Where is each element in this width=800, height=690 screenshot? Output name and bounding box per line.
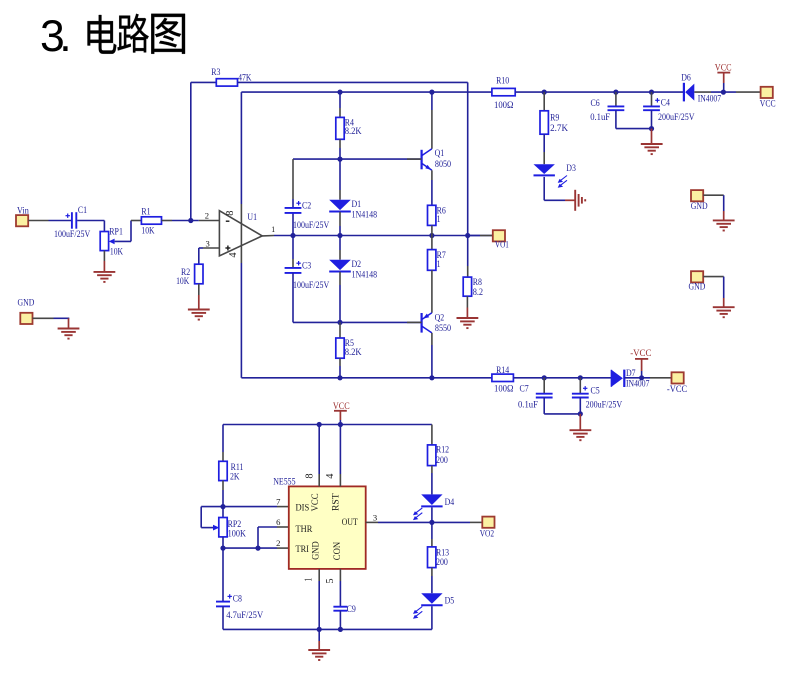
GND left ground <box>68 318 70 328</box>
wire DIS to chip <box>223 506 277 508</box>
svg-text:4.7uF/25V: 4.7uF/25V <box>226 610 263 620</box>
555 ground <box>318 629 320 641</box>
C5 ground <box>579 414 581 430</box>
node C9 bottom <box>338 627 343 632</box>
port VO2 <box>482 517 494 528</box>
potentiometer RP1 <box>100 232 108 251</box>
capacitor C2 <box>285 207 302 209</box>
svg-text:C7: C7 <box>520 383 530 393</box>
node R9 top <box>542 90 547 95</box>
transistor Q2 <box>421 313 423 333</box>
wire R3 rail right to feedback column <box>238 81 468 83</box>
svg-text:GND: GND <box>689 281 706 291</box>
node R3 R8 VO1 <box>465 233 470 238</box>
svg-text:GND: GND <box>18 297 35 307</box>
svg-text:8: 8 <box>225 211 236 216</box>
wire C1 to RP1 <box>77 220 104 222</box>
RP2 wiper arrow <box>213 525 219 531</box>
svg-text:R12: R12 <box>436 445 449 455</box>
RP1 ground <box>103 251 105 261</box>
svg-text:CON: CON <box>332 541 342 560</box>
svg-text:0.1uF: 0.1uF <box>518 400 538 410</box>
svg-text:2K: 2K <box>230 471 240 481</box>
svg-text:C3: C3 <box>302 261 312 271</box>
capacitor C5 <box>579 378 581 394</box>
node pin8 top <box>317 422 322 427</box>
resistor R5 <box>339 322 341 338</box>
wire rail right of R14 <box>513 377 611 379</box>
svg-text:1N4148: 1N4148 <box>352 210 378 220</box>
resistor R1 <box>141 217 161 224</box>
svg-text:10K: 10K <box>110 247 124 257</box>
svg-text:5: 5 <box>325 578 336 583</box>
svg-text:IN4007: IN4007 <box>698 93 722 103</box>
capacitor C7 <box>543 378 545 394</box>
svg-text:8.2K: 8.2K <box>345 126 362 136</box>
wire THR line <box>277 526 289 528</box>
port -VCC <box>672 372 684 383</box>
svg-text:100uF/25V: 100uF/25V <box>54 229 91 239</box>
node THR TRI join <box>255 546 260 551</box>
node R4 D1 top <box>337 157 342 162</box>
node R6 R7 <box>429 233 434 238</box>
resistor R10 <box>492 88 515 95</box>
opamp plus sign <box>225 247 230 249</box>
wire Vin to C1 <box>28 220 48 222</box>
wire OUT line <box>366 521 378 523</box>
svg-text:D1: D1 <box>352 199 362 209</box>
capacitor C8 <box>216 601 230 603</box>
LED D5 <box>421 593 442 604</box>
svg-text:7: 7 <box>276 496 281 506</box>
svg-text:3: 3 <box>206 239 210 249</box>
svg-text:200uF/25V: 200uF/25V <box>586 400 623 410</box>
svg-text:VCC: VCC <box>310 493 320 511</box>
capacitor C1 <box>71 212 73 229</box>
wire C2 column <box>292 159 294 199</box>
svg-text:Vin: Vin <box>17 205 29 215</box>
wire V- rail y377 <box>241 377 492 379</box>
svg-text:VO1: VO1 <box>495 239 509 249</box>
resistor R7 <box>431 236 433 250</box>
capacitor C3 <box>292 236 294 260</box>
svg-text:Q1: Q1 <box>435 148 445 158</box>
node VCC tick <box>721 90 726 95</box>
node C7 top <box>542 375 547 380</box>
svg-text:-VCC: -VCC <box>630 348 651 358</box>
svg-text:U1: U1 <box>247 212 257 222</box>
pin 1 stub <box>318 569 320 581</box>
svg-text:10K: 10K <box>176 276 190 286</box>
svg-text:4: 4 <box>228 252 239 258</box>
transistor Q1 <box>429 90 434 95</box>
resistor R14 <box>492 374 514 381</box>
resistor R6 <box>431 170 433 180</box>
svg-text:1: 1 <box>303 578 314 582</box>
node Q2 collector <box>429 375 434 380</box>
node R4 top <box>337 90 342 95</box>
svg-text:VCC: VCC <box>333 401 350 411</box>
wire D6 to VCC port <box>694 91 711 93</box>
svg-text:GND: GND <box>691 201 708 211</box>
pin 8 stub <box>318 474 320 486</box>
svg-text:C4: C4 <box>661 98 671 108</box>
wire R1 to opamp pin2 <box>162 220 173 222</box>
svg-text:THR: THR <box>296 524 313 534</box>
svg-text:100uF/25V: 100uF/25V <box>293 280 330 290</box>
resistor R4 <box>339 92 341 108</box>
svg-text:2: 2 <box>276 538 280 548</box>
svg-text:DIS: DIS <box>296 503 310 513</box>
wire R3 rail left <box>191 81 217 83</box>
svg-text:R9: R9 <box>550 113 560 123</box>
resistor R3 <box>216 79 237 86</box>
svg-text:C6: C6 <box>591 98 601 108</box>
svg-text:D4: D4 <box>445 497 455 507</box>
potentiometer RP2 <box>222 507 224 518</box>
pin 5 stub C9 <box>339 569 341 581</box>
node C4 bottom <box>649 126 654 131</box>
svg-text:0.1uF: 0.1uF <box>590 112 610 122</box>
svg-text:3: 3 <box>373 512 377 522</box>
resistor R2 <box>195 264 203 284</box>
svg-text:1: 1 <box>437 259 441 269</box>
svg-text:6: 6 <box>276 517 281 527</box>
GND2 ground <box>713 306 735 308</box>
node pin1 bottom <box>317 627 322 632</box>
opamp U1 <box>219 211 262 256</box>
node pin2 junction <box>188 218 193 223</box>
R8 ground <box>466 296 468 307</box>
svg-text:8050: 8050 <box>435 159 452 169</box>
svg-text:100uF/25V: 100uF/25V <box>293 220 330 230</box>
node R11 RP2 DIS <box>220 504 225 509</box>
svg-text:2.7K: 2.7K <box>550 123 568 133</box>
svg-text:8.2: 8.2 <box>473 287 483 297</box>
svg-text:R14: R14 <box>496 365 510 375</box>
svg-text:100Ω: 100Ω <box>494 384 514 394</box>
svg-text:8.2K: 8.2K <box>345 347 362 357</box>
svg-text:VO2: VO2 <box>480 528 494 538</box>
diode D6 <box>683 83 685 102</box>
LED D3 <box>543 134 545 152</box>
svg-text:D2: D2 <box>352 259 362 269</box>
svg-text:R3: R3 <box>211 67 221 77</box>
wire D3 to ground <box>543 177 545 200</box>
node OUT <box>429 520 434 525</box>
svg-text:10K: 10K <box>141 226 155 236</box>
wire D7 to -VCC port <box>624 377 650 379</box>
port VO1 <box>468 235 480 237</box>
wire right column <box>431 425 433 445</box>
svg-text:-VCC: -VCC <box>667 384 687 394</box>
svg-text:D6: D6 <box>681 72 691 82</box>
port Vin <box>16 215 28 226</box>
node pin4 top <box>338 422 343 427</box>
diode D7 <box>610 370 612 387</box>
wire OUT to VO2 <box>432 521 470 523</box>
resistor R13 <box>431 522 433 539</box>
node RP2 bottom TRI <box>220 546 225 551</box>
svg-text:D5: D5 <box>445 596 455 606</box>
svg-text:8550: 8550 <box>435 323 452 333</box>
wire output rail y235 <box>293 235 493 237</box>
wire lower base rail <box>293 321 421 323</box>
svg-text:R10: R10 <box>496 75 510 85</box>
svg-text:1: 1 <box>437 214 441 224</box>
wire wiper to R1 <box>130 221 132 242</box>
resistor R12 <box>428 445 436 466</box>
opamp power line vertical <box>240 92 242 204</box>
LED D4 <box>421 494 442 505</box>
svg-text:IN4007: IN4007 <box>626 379 650 389</box>
node D2 R5 <box>337 320 342 325</box>
port GND right 2 <box>691 271 703 282</box>
resistor R8 <box>467 236 469 267</box>
svg-text:D3: D3 <box>566 163 576 173</box>
node R5 bottom <box>337 375 342 380</box>
node C5 top <box>578 375 583 380</box>
svg-text:C9: C9 <box>347 604 357 614</box>
capacitor C9 <box>333 606 347 608</box>
svg-text:100Ω: 100Ω <box>494 100 514 110</box>
port GND right 1 <box>691 190 703 201</box>
wire left column down <box>222 425 224 453</box>
node C5 bottom <box>578 411 583 416</box>
wire feedback column down <box>467 82 469 235</box>
node -VCC tick <box>639 375 644 380</box>
C4 ground <box>651 129 653 144</box>
svg-text:R13: R13 <box>436 547 450 557</box>
capacitor C6 <box>613 90 618 95</box>
svg-text:.: . <box>59 12 71 61</box>
svg-text:1: 1 <box>271 224 275 234</box>
wire upper base rail <box>293 158 421 160</box>
wire 555 top rail <box>223 424 432 426</box>
RP1 wiper arrow <box>109 239 115 245</box>
svg-text:RP1: RP1 <box>109 227 123 237</box>
wire 555 bottom rail <box>223 628 432 630</box>
wire rail right of R10 <box>515 91 684 93</box>
svg-text:200: 200 <box>436 455 448 465</box>
svg-text:C1: C1 <box>78 205 87 215</box>
node C2 bottom <box>290 233 295 238</box>
svg-text:2: 2 <box>205 210 209 220</box>
wire pin2 node up to R3 <box>190 82 192 220</box>
svg-text:R8: R8 <box>473 277 483 287</box>
svg-text:GND: GND <box>310 541 320 560</box>
svg-text:TRI: TRI <box>296 544 309 554</box>
wire opamp output <box>262 235 274 237</box>
wire pin3 to R2 <box>203 247 219 249</box>
svg-text:47K: 47K <box>238 73 252 83</box>
diode D2 <box>339 236 341 251</box>
svg-text:C5: C5 <box>591 385 601 395</box>
chip NE555 body <box>289 486 366 569</box>
svg-text:C2: C2 <box>302 201 311 211</box>
pin 4 stub <box>339 474 341 486</box>
wire V+ rail y92 <box>241 91 492 93</box>
svg-text:RST: RST <box>331 493 341 511</box>
node D1 bottom <box>337 233 342 238</box>
capacitor C4 <box>649 90 654 95</box>
wire DIS loop <box>201 506 223 508</box>
svg-text:D7: D7 <box>626 368 636 378</box>
port GND left <box>20 313 32 324</box>
resistor R9 <box>543 92 545 111</box>
svg-text:C8: C8 <box>233 594 243 604</box>
wire TRI line <box>223 547 277 549</box>
svg-text:R1: R1 <box>141 206 150 216</box>
resistor R11 <box>219 461 227 480</box>
R2 ground <box>198 284 200 295</box>
diode D1 <box>339 159 341 190</box>
svg-text:Q2: Q2 <box>435 312 445 322</box>
wire GND port <box>33 317 54 319</box>
svg-text:NE555: NE555 <box>273 476 296 486</box>
svg-text:200uF/25V: 200uF/25V <box>658 112 695 122</box>
D3 ground rotated <box>565 199 575 201</box>
svg-text:100K: 100K <box>228 528 247 538</box>
port VCC <box>761 87 773 98</box>
svg-text:1N4148: 1N4148 <box>352 270 378 280</box>
svg-text:4: 4 <box>325 473 336 479</box>
svg-text:VCC: VCC <box>715 63 732 73</box>
svg-text:8: 8 <box>304 473 315 478</box>
svg-text:200: 200 <box>436 557 448 567</box>
opamp minus sign <box>226 220 230 222</box>
svg-text:OUT: OUT <box>342 517 358 527</box>
wire left column to C8 <box>222 548 224 602</box>
GND1 ground <box>713 219 735 221</box>
svg-text:VCC: VCC <box>760 99 776 109</box>
